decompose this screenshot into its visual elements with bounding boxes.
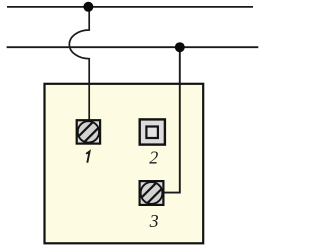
- wire L2 (second horizontal line): [7, 46, 259, 48]
- wire from L2 junction down and left to component 3: [164, 47, 180, 192]
- component 1 (hatched-circle device in square): [73, 117, 104, 148]
- component 3 (hatched-circle device in square): [136, 178, 167, 209]
- svg-text:2: 2: [149, 147, 158, 167]
- label 2: [149, 147, 158, 167]
- wire L1 (top horizontal line): [7, 6, 253, 8]
- junction box: [45, 84, 204, 244]
- junction dot on L1: [83, 2, 93, 12]
- label 1: [86, 151, 90, 162]
- junction dot on L2: [175, 42, 185, 52]
- component 2 (square-in-square device): [140, 119, 165, 144]
- wire from L1 junction down to component 1 (hops over L2): [69, 7, 89, 121]
- label 3: [149, 211, 159, 231]
- svg-text:3: 3: [149, 211, 159, 231]
